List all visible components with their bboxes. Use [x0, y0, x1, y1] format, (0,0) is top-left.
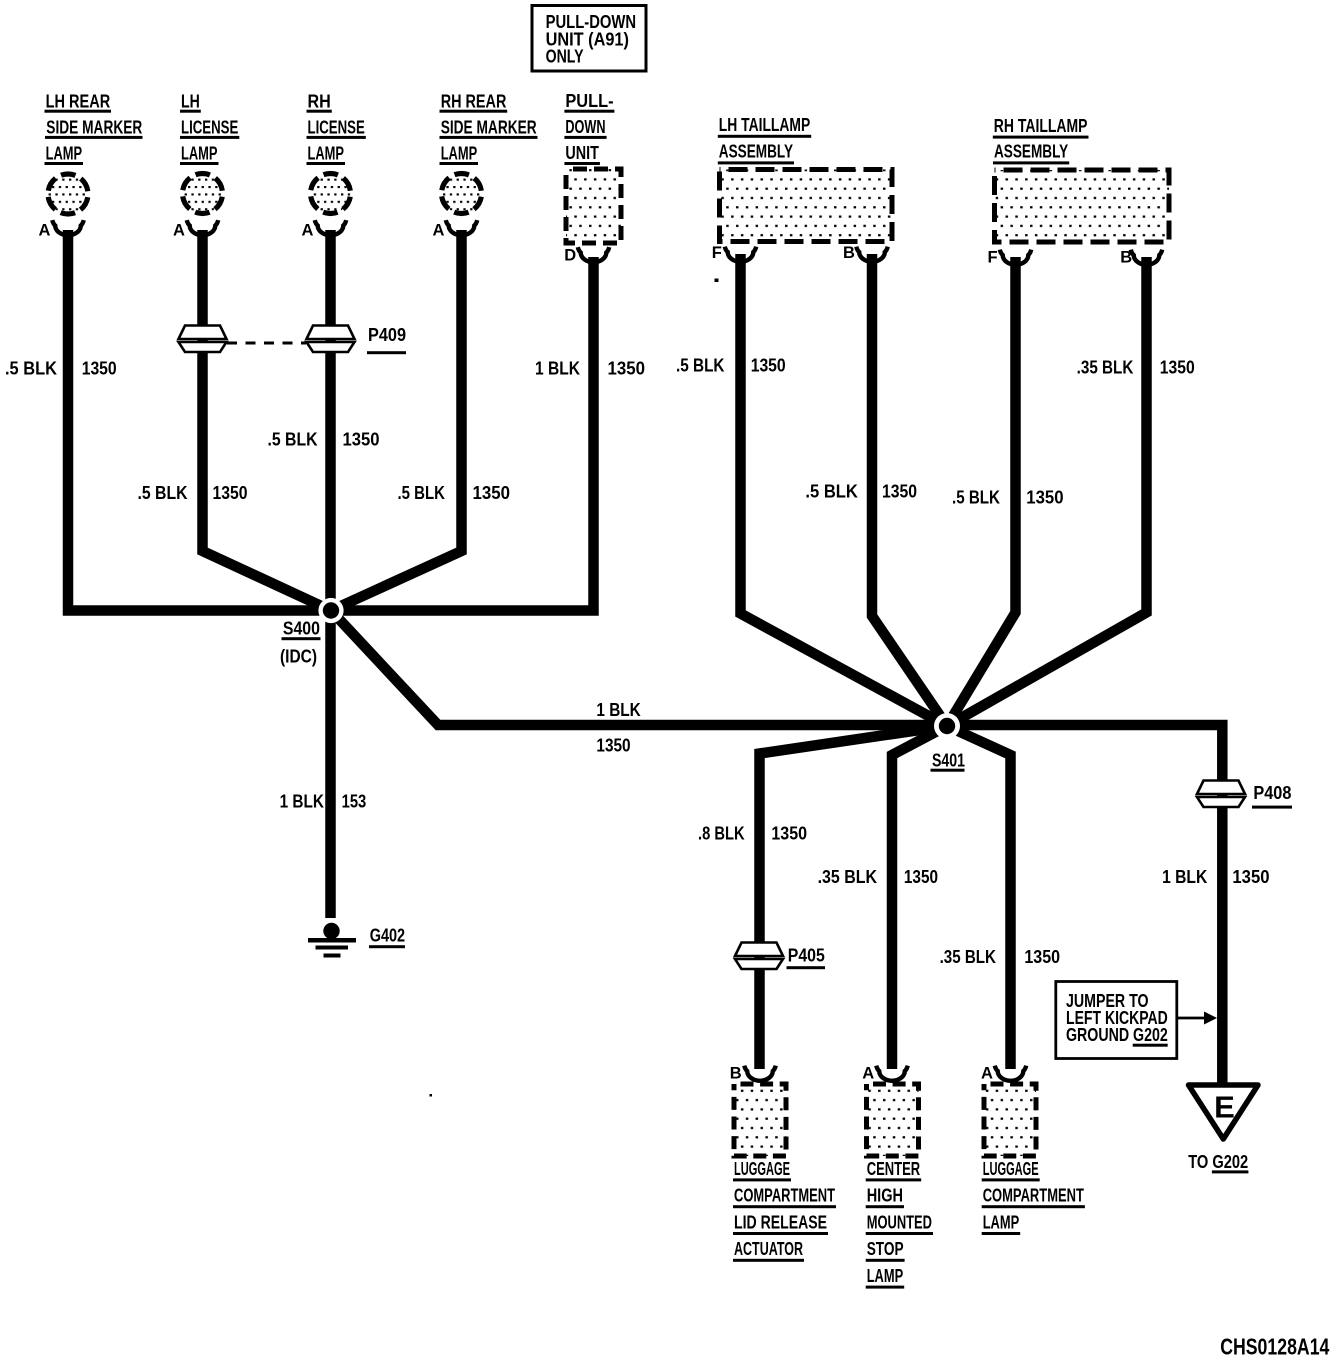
pin F of LH taillamp	[725, 247, 756, 262]
svg-text:.5 BLK: .5 BLK	[138, 483, 188, 503]
svg-text:ASSEMBLY: ASSEMBLY	[719, 142, 793, 162]
wire S401 to luggage compartment lid release actuator B via P405, .8 BLK 1350	[760, 726, 948, 1069]
svg-text:D: D	[564, 247, 576, 265]
lamp LH rear side marker	[48, 174, 88, 214]
ground symbol E to G202	[1189, 1085, 1259, 1139]
svg-text:STOP: STOP	[867, 1239, 904, 1259]
svg-text:1350: 1350	[1024, 947, 1060, 967]
svg-text:CHS0128A14: CHS0128A14	[1220, 1334, 1329, 1360]
svg-text:LAMP: LAMP	[308, 144, 345, 164]
note box: jumper to left kickpad ground G202	[1056, 982, 1177, 1059]
svg-text:LAMP: LAMP	[983, 1212, 1020, 1232]
svg-text:.35 BLK: .35 BLK	[818, 867, 877, 887]
svg-text:S400: S400	[283, 619, 320, 639]
ground G402	[323, 923, 339, 939]
lamp LH license	[183, 174, 223, 214]
wire S400 to S401 bus continuing to P408 and ground E, 1 BLK 1350	[331, 611, 1222, 1091]
svg-text:LH REAR: LH REAR	[46, 91, 111, 111]
svg-text:A: A	[173, 221, 185, 239]
pin A of RH rear side marker lamp	[446, 220, 477, 235]
svg-text:MOUNTED: MOUNTED	[867, 1212, 932, 1232]
lamp RH license	[311, 174, 351, 214]
svg-text:.8 BLK: .8 BLK	[698, 824, 745, 844]
svg-text:A: A	[433, 221, 445, 239]
wire RH rear side marker lamp A to S400, .5 BLK 1350	[331, 230, 462, 611]
svg-text:PULL-: PULL-	[565, 91, 613, 111]
svg-text:LAMP: LAMP	[46, 144, 83, 164]
svg-text:1350: 1350	[904, 867, 938, 887]
svg-text:G402: G402	[370, 926, 405, 946]
svg-text:.5 BLK: .5 BLK	[398, 483, 446, 503]
svg-text:1350: 1350	[343, 430, 380, 450]
svg-text:.35 BLK: .35 BLK	[1077, 358, 1134, 378]
luggage compartment lamp box	[984, 1084, 1036, 1156]
wire LH taillamp B to S401, .5 BLK 1350	[872, 254, 947, 726]
svg-text:(IDC): (IDC)	[280, 647, 317, 667]
pin F of RH taillamp	[1000, 250, 1031, 265]
RH taillamp assembly box	[995, 170, 1170, 242]
lamp RH rear side marker	[442, 174, 482, 214]
svg-text:S401: S401	[932, 751, 965, 771]
svg-text:1350: 1350	[771, 824, 807, 844]
svg-text:.5 BLK: .5 BLK	[805, 481, 858, 501]
svg-text:LID RELEASE: LID RELEASE	[734, 1212, 827, 1232]
svg-text:F: F	[988, 248, 998, 266]
svg-text:LUGGAGE: LUGGAGE	[983, 1159, 1039, 1179]
svg-text:1350: 1350	[1232, 867, 1269, 887]
svg-text:.5 BLK: .5 BLK	[676, 355, 725, 375]
svg-text:A: A	[981, 1065, 993, 1083]
splice S401	[934, 713, 960, 739]
svg-text:B: B	[843, 244, 855, 262]
pin B of RH taillamp	[1131, 250, 1162, 265]
connector P405	[735, 943, 783, 957]
svg-text:HIGH: HIGH	[867, 1186, 903, 1206]
svg-text:GROUND G202: GROUND G202	[1066, 1025, 1168, 1045]
svg-text:LAMP: LAMP	[181, 144, 218, 164]
pin A of luggage compartment lamp	[995, 1066, 1026, 1081]
svg-text:SIDE MARKER: SIDE MARKER	[441, 118, 537, 138]
wire LH license lamp A to S400, .5 BLK 1350	[203, 230, 332, 611]
svg-text:1 BLK: 1 BLK	[535, 358, 580, 378]
svg-text:ACTUATOR: ACTUATOR	[734, 1239, 803, 1259]
svg-text:1350: 1350	[473, 483, 511, 503]
LH taillamp assembly box	[720, 170, 893, 242]
svg-text:RH REAR: RH REAR	[441, 91, 507, 111]
wire RH license lamp A through S400 to ground G402, .5 BLK 1350 / 1 BLK 153	[325, 230, 336, 918]
pin A of RH license lamp	[315, 220, 346, 235]
svg-text:P408: P408	[1253, 783, 1291, 803]
svg-text:P409: P409	[368, 325, 406, 345]
svg-text:UNIT: UNIT	[565, 143, 599, 163]
splice S400 (IDC)	[318, 598, 343, 623]
svg-text:P405: P405	[788, 946, 825, 966]
pin B of lid release actuator	[744, 1066, 775, 1081]
svg-text:1350: 1350	[213, 483, 248, 503]
stray speck	[715, 279, 719, 283]
wire pull-down unit D to S400, 1 BLK 1350	[331, 257, 594, 611]
svg-text:1350: 1350	[596, 736, 630, 756]
wire RH taillamp B to S401, .35 BLK 1350	[947, 257, 1147, 726]
svg-text:1350: 1350	[82, 358, 117, 378]
pin A of LH license lamp	[187, 220, 218, 235]
svg-text:153: 153	[342, 792, 367, 812]
dashed link between P409 connector halves	[227, 342, 306, 345]
stray speck	[430, 1094, 433, 1097]
svg-text:COMPARTMENT: COMPARTMENT	[734, 1186, 835, 1206]
svg-text:.5 BLK: .5 BLK	[5, 358, 57, 378]
wire RH taillamp F to S401, .5 BLK 1350	[947, 257, 1016, 726]
connector P409 on RH license wire	[307, 326, 355, 340]
svg-text:A: A	[39, 221, 51, 239]
pin A of LH rear side marker lamp	[52, 220, 83, 235]
connector P408	[1197, 781, 1245, 795]
connector on LH license wire (pairs with P409)	[179, 326, 227, 340]
arrow from note box to wire	[1177, 1017, 1205, 1020]
pull-down unit box	[566, 169, 621, 243]
svg-text:LICENSE: LICENSE	[181, 118, 238, 138]
svg-text:A: A	[302, 221, 314, 239]
svg-text:LH TAILLAMP: LH TAILLAMP	[719, 115, 810, 135]
svg-text:LH: LH	[181, 91, 200, 111]
svg-text:1 BLK: 1 BLK	[596, 700, 640, 720]
note box: pull-down unit (A91) only	[532, 6, 646, 72]
svg-text:A: A	[862, 1065, 874, 1083]
svg-text:LAMP: LAMP	[441, 144, 478, 164]
svg-text:1 BLK: 1 BLK	[1162, 867, 1207, 887]
svg-text:LICENSE: LICENSE	[308, 118, 365, 138]
svg-text:COMPARTMENT: COMPARTMENT	[983, 1186, 1084, 1206]
svg-text:.35 BLK: .35 BLK	[940, 947, 996, 967]
svg-text:DOWN: DOWN	[565, 117, 605, 137]
svg-text:.5 BLK: .5 BLK	[952, 487, 1000, 507]
svg-text:RH TAILLAMP: RH TAILLAMP	[994, 116, 1088, 136]
pin B of LH taillamp	[856, 247, 887, 262]
wire LH rear side marker lamp A to S400, .5 BLK 1350	[68, 230, 331, 611]
center high mounted stop lamp box	[867, 1084, 919, 1156]
svg-text:SIDE MARKER: SIDE MARKER	[46, 118, 142, 138]
svg-text:TO G202: TO G202	[1188, 1152, 1248, 1172]
wire S401 to luggage compartment lamp A, .35 BLK 1350	[947, 726, 1011, 1069]
svg-text:1350: 1350	[751, 355, 786, 375]
svg-text:F: F	[712, 244, 722, 262]
wire LH taillamp F to S401, .5 BLK 1350	[741, 254, 948, 726]
svg-text:LUGGAGE: LUGGAGE	[734, 1159, 790, 1179]
svg-text:1350: 1350	[608, 358, 646, 378]
pin D of pull-down unit	[578, 247, 609, 262]
svg-text:ASSEMBLY: ASSEMBLY	[994, 142, 1068, 162]
svg-text:1350: 1350	[1160, 358, 1195, 378]
svg-text:.5 BLK: .5 BLK	[268, 430, 318, 450]
svg-text:RH: RH	[308, 91, 331, 111]
svg-text:ONLY: ONLY	[546, 46, 584, 66]
svg-text:1350: 1350	[1026, 487, 1063, 507]
svg-text:CENTER: CENTER	[867, 1159, 921, 1179]
svg-text:1350: 1350	[882, 481, 917, 501]
wire S401 to center high mounted stop lamp A, .35 BLK 1350	[892, 726, 947, 1069]
pin A of center high mounted stop lamp	[876, 1066, 907, 1081]
svg-text:1 BLK: 1 BLK	[280, 792, 324, 812]
svg-text:E: E	[1214, 1089, 1235, 1124]
luggage compartment lid release actuator box	[734, 1084, 786, 1156]
svg-text:B: B	[1120, 248, 1132, 266]
svg-text:LAMP: LAMP	[867, 1266, 904, 1286]
svg-text:B: B	[730, 1065, 742, 1083]
